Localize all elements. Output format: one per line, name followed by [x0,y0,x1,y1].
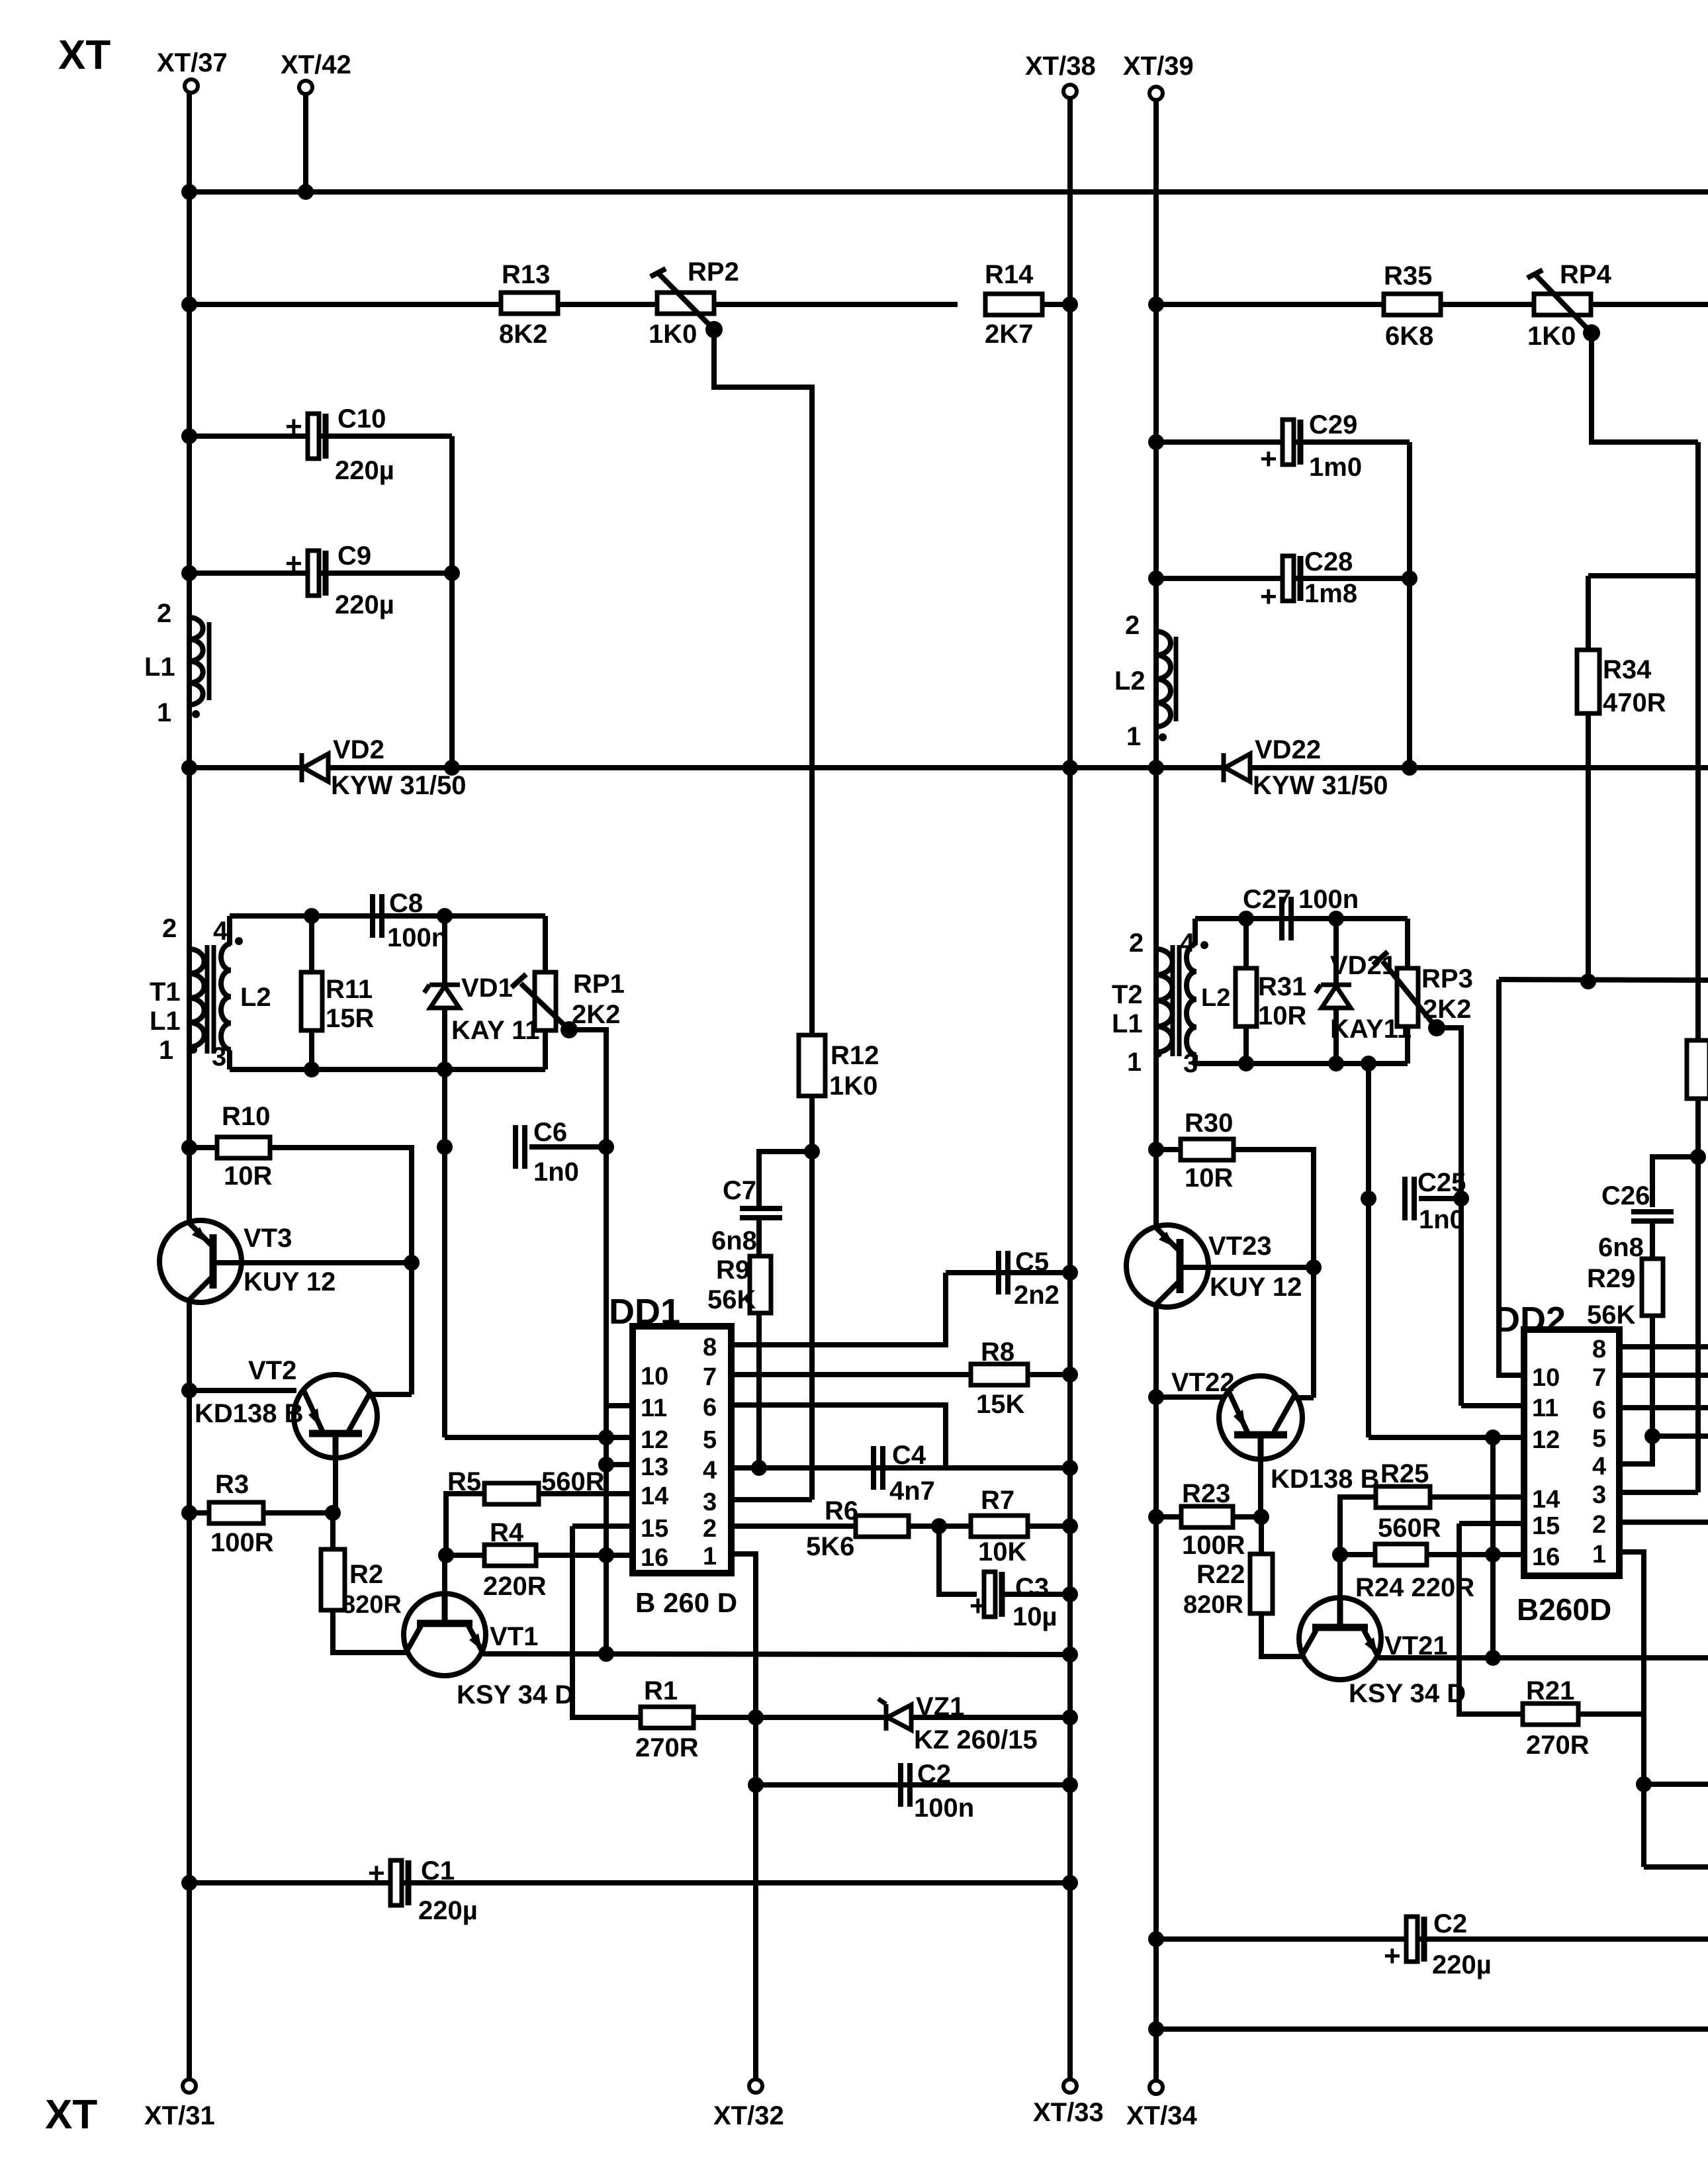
junction DD1-left line VT1 row [598,1646,614,1662]
wire T1 core left [205,945,210,1054]
svg-text:56K: 56K [1587,1300,1635,1330]
svg-text:VD2: VD2 [333,735,384,764]
wire second row left [189,302,502,307]
wire R1 to pin1 line [694,1715,756,1720]
wire R9 bottom lead [756,1313,762,1468]
wire bottom row [1156,2026,1708,2032]
svg-text:KAY 11: KAY 11 [451,1016,539,1045]
svg-text:C28: C28 [1304,547,1353,576]
wire VT22 emitter row [1156,1394,1224,1400]
capacitor C26 [1631,1212,1674,1221]
junction bus VT22 row [1148,1389,1164,1405]
wire pin2 row DD2 [1619,1520,1708,1525]
svg-text:XT/32: XT/32 [713,2101,784,2130]
polarity dot L2 pin1 [1159,733,1167,741]
svg-text:2K2: 2K2 [1423,995,1471,1024]
junction bus C28 row [1148,570,1164,586]
wire C10 row [189,433,452,439]
svg-text:VT23: VT23 [1208,1232,1272,1261]
svg-text:XT/31: XT/31 [144,2101,215,2130]
junction C6 right [598,1139,614,1155]
wire VT2 collector link [368,1392,412,1397]
junction bus C9 row [181,565,197,581]
svg-text:R25: R25 [1380,1459,1429,1488]
capacitor C25 [1405,1177,1414,1220]
transformer T1 secondary [221,944,231,1050]
junction bus R10 row [181,1140,197,1156]
junction DD2-left line pin16 [1485,1547,1501,1563]
svg-text:R7: R7 [981,1486,1014,1515]
wire pin1 jog [731,1554,756,2079]
wire R32 bottom lead [1695,1099,1701,1492]
svg-text:2: 2 [157,599,171,628]
svg-text:B260D: B260D [1517,1592,1611,1627]
svg-text:10R: 10R [224,1161,272,1191]
resistor R11 [301,972,322,1030]
wire VD21 lead [1333,919,1339,1064]
wire T2 core left [1171,945,1175,1056]
junction pin1-line R1 row [748,1709,764,1725]
junction C9 right [444,565,460,581]
svg-text:R14: R14 [985,260,1034,289]
svg-text:VT2: VT2 [248,1356,296,1385]
svg-text:XT: XT [45,2092,97,2138]
wire second row right [1156,302,1386,307]
svg-text:12: 12 [1532,1426,1560,1454]
wire R3 row [189,1510,209,1516]
wire C26 to R29 [1650,1222,1655,1259]
svg-text:4n7: 4n7 [889,1476,935,1506]
svg-text:R3: R3 [215,1470,249,1499]
wire top bus [189,189,1708,195]
wire pin15 to R1 [572,1526,641,1717]
junction VD1 bottom [437,1062,453,1077]
wire C4 row [759,1465,1070,1471]
junction bus bottom row [1148,2021,1164,2037]
svg-text:270R: 270R [1526,1731,1590,1760]
svg-text:10R: 10R [1185,1163,1233,1193]
junction C25 right [1453,1191,1469,1206]
resistor R10 [217,1137,270,1158]
junction DD1-left line pin13 [598,1457,614,1473]
junction XT/38 line R8 row [1062,1367,1078,1383]
wire T1 secondary bottom lead [227,1050,232,1069]
wire pin13 stub [606,1462,633,1467]
wire R11 top lead [309,916,314,972]
transformer T2 primary [1156,949,1173,1052]
polarity dot T2 pin4 [1200,941,1208,949]
IC DD2 B260D [1524,1330,1619,1576]
svg-text:220µ: 220µ [335,456,394,485]
zener diode VD21 [1316,985,1351,1008]
svg-text:KUY 12: KUY 12 [1210,1273,1302,1302]
capacitor C9 [285,547,326,596]
wire R32 line upper [1695,442,1701,1040]
resistor R34 [1577,650,1599,713]
wire C29 right vertical [1407,442,1412,578]
svg-text:RP2: RP2 [688,257,739,287]
junction R22 top [1253,1509,1269,1525]
wire C28 branch to VD22 row [1407,578,1412,768]
svg-text:15: 15 [1532,1512,1560,1540]
transformer T1 primary [189,949,204,1047]
junction R32 line C26 branch [1690,1149,1706,1165]
capacitor C7 [740,1208,782,1218]
wire R3 to R2 junction [263,1510,333,1516]
svg-text:3: 3 [703,1488,717,1516]
wire R34 top lead [1586,576,1591,650]
wire T1 core right [212,945,216,1054]
wire T2 secondary bottom lead [1192,1055,1198,1064]
wire VT3 base row [213,1260,412,1265]
svg-text:2: 2 [1129,929,1144,958]
svg-text:6n8: 6n8 [1598,1233,1644,1262]
junction DD2-left line VT21 row [1485,1650,1501,1666]
svg-text:10: 10 [641,1363,668,1390]
wire T1 secondary top lead [227,916,232,945]
svg-text:R13: R13 [502,260,550,289]
svg-text:6K8: 6K8 [1385,322,1433,351]
wire pin12 horizontal [442,1435,447,1437]
junction R6 R7 [931,1518,947,1534]
svg-text:1: 1 [159,1036,173,1065]
svg-text:5: 5 [703,1426,717,1454]
svg-text:8: 8 [1592,1336,1606,1363]
svg-text:2K2: 2K2 [572,1000,620,1029]
wire C28 row [1156,576,1410,581]
wire T2 secondary top lead [1192,919,1198,945]
svg-text:C7: C7 [723,1176,756,1205]
wire R13 to RP2 [558,302,657,307]
junction XT/37 top bus [181,184,197,200]
zener diode VZ1 [878,1699,911,1731]
resistor R9 [750,1256,771,1313]
junction C28-branch VD22 row [1402,760,1417,776]
junction R29 pin5 row [1644,1428,1660,1444]
junction C28 right [1402,570,1417,586]
svg-text:R12: R12 [831,1041,879,1070]
junction bus VT2 row [181,1383,197,1398]
capacitor C28 [1260,556,1300,613]
junction XT/38 line R7 row [1062,1518,1078,1534]
wire C29 row [1156,439,1410,445]
wire C25 right lead [1419,1196,1461,1201]
junction VD21 bottom [1328,1056,1344,1071]
wire pin6 jog [731,1405,946,1468]
svg-text:C10: C10 [337,404,386,433]
svg-text:+: + [969,1590,987,1622]
wire R22 to VT21 [1261,1613,1304,1657]
svg-text:R21: R21 [1526,1676,1574,1705]
wire R6 to R7 [909,1523,972,1529]
svg-text:560R: 560R [1378,1514,1441,1543]
svg-text:R34: R34 [1603,655,1652,684]
svg-text:1K0: 1K0 [829,1071,877,1101]
terminal XT/34 [1149,2081,1163,2094]
wire R24 to pin16 [1427,1552,1524,1557]
junction bus C1 row [181,1875,197,1891]
wire C3 branch [939,1526,977,1594]
svg-text:R30: R30 [1185,1109,1233,1138]
wire pin3 row [731,1497,812,1502]
wire R14 to XT38 line [1042,302,1070,307]
wire R31 top lead [1243,919,1249,968]
svg-text:DD2: DD2 [1494,1300,1566,1340]
svg-text:XT/38: XT/38 [1025,52,1096,81]
zener diode VD1 [424,985,460,1008]
terminal XT/37 [185,79,198,93]
polarity dot T1 pin4 [235,937,243,945]
svg-text:1: 1 [1127,1048,1142,1077]
capacitor C21 [1384,1917,1424,1972]
resistor R6 [856,1516,909,1537]
wire R22 top lead [1259,1517,1264,1555]
wire pin8 row DD2 [1619,1344,1708,1349]
svg-text:VD22: VD22 [1255,735,1321,764]
wire pin5 row DD2 [1652,1433,1708,1439]
junction VT23 base [1306,1259,1322,1275]
svg-text:C8: C8 [389,889,423,918]
junction left bus second row [181,296,197,312]
svg-text:C9: C9 [337,541,371,570]
capacitor C6 [516,1125,525,1169]
svg-text:8: 8 [703,1334,717,1361]
capacitor C4 [874,1446,883,1490]
wire C26 branch [1652,1157,1698,1207]
wire left bus XT/37 vertical (below VT3) [187,1300,192,2081]
junction R12 C7 branch [804,1144,820,1159]
wire R24 left lead [1340,1552,1376,1557]
svg-text:5: 5 [1592,1425,1606,1453]
resistor R24 [1375,1544,1427,1565]
svg-text:XT/42: XT/42 [281,50,351,79]
svg-text:VZ1: VZ1 [916,1692,964,1721]
polarity dot T1 pin1 [189,1046,197,1054]
resistor R12 [799,1035,825,1096]
svg-text:100n: 100n [387,923,447,952]
wire pin12 row DD2 [1369,1435,1524,1440]
svg-text:XT/37: XT/37 [157,48,228,77]
junction bus R23 row [1148,1509,1164,1525]
svg-text:220R: 220R [483,1572,547,1601]
wire VD21 bottom vertical [1366,1064,1371,1437]
svg-text:XT/33: XT/33 [1033,2098,1104,2127]
transformer T2 secondary [1187,944,1196,1055]
svg-text:L2: L2 [240,983,271,1012]
wire left bus XT/37 vertical (top) [187,93,192,1223]
wire VT2 emitter row [189,1388,296,1393]
svg-text:12: 12 [641,1426,668,1454]
junction right bus VD2 row [1148,760,1164,776]
wire pin15 to R21 [1459,1523,1523,1714]
svg-text:R9: R9 [716,1255,750,1285]
svg-text:3: 3 [1592,1481,1606,1509]
svg-text:VD1: VD1 [461,974,513,1003]
svg-text:10µ: 10µ [1012,1602,1057,1631]
wire pin10 row [1499,979,1708,980]
wire R10 to VT3 base line [270,1148,412,1394]
resistor R8 [971,1364,1028,1385]
svg-text:1n0: 1n0 [533,1158,579,1187]
svg-text:3: 3 [212,1042,226,1071]
wire XT/42 stub [303,94,308,192]
svg-text:14: 14 [1532,1486,1560,1514]
svg-text:L1: L1 [144,653,175,682]
transistor VT3 KUY12 [159,1220,242,1302]
junction bus R30 row [1148,1142,1164,1158]
wire pin6 row DD2 [1619,1405,1708,1410]
svg-text:6: 6 [1592,1396,1606,1424]
svg-text:+: + [1260,443,1277,475]
svg-text:VT1: VT1 [490,1622,538,1651]
wire C21 row [1156,1936,1708,1942]
wire R2 top lead [330,1513,336,1550]
svg-text:R8: R8 [981,1338,1014,1367]
resistor R13 [501,293,558,314]
wire C7 to R9 [756,1220,762,1256]
svg-text:RP4: RP4 [1560,260,1612,289]
capacitor C8 [373,894,382,938]
wire R23 to R22 junction [1233,1514,1261,1520]
svg-text:1: 1 [1126,722,1141,751]
resistor R5 [484,1483,539,1504]
wire VD2/VD22 row [189,765,1708,770]
wire pin7 row DD2 [1619,1373,1708,1378]
junction bus C29 row [1148,434,1164,450]
junction XT/38 line VD2 row [1062,760,1078,776]
svg-text:KSY 34 D: KSY 34 D [457,1680,574,1709]
potentiometer RP4 [1527,270,1600,341]
wire pin1 jog DD2 [1619,1552,1644,1867]
resistor R3 [209,1502,263,1523]
wire RP4 wiper jog [1592,333,1698,442]
wire VT23 base row [1180,1265,1314,1270]
svg-text:KZ 260/15: KZ 260/15 [914,1725,1038,1754]
svg-text:2n2: 2n2 [1014,1281,1059,1310]
wire pin2 row [731,1523,856,1529]
polarity dot L1 pin1 [192,710,200,718]
resistor R7 [971,1516,1028,1537]
wire R35 to RP4 [1441,302,1533,307]
wire VZ1 row [756,1715,1070,1720]
capacitor C1 [368,1857,408,1905]
svg-text:C5: C5 [1015,1248,1049,1277]
terminal XT/31 [183,2079,196,2093]
junction XT/38 line VT1 row [1062,1647,1078,1662]
wire R23 row [1156,1514,1181,1520]
wire DD2-left vertical [1490,1437,1496,1658]
junction XT/38 line VZ1 row [1062,1709,1078,1725]
junction R14 XT/38 line [1062,296,1078,312]
resistor R4 [484,1545,536,1566]
junction R34 pin10 row [1580,974,1596,989]
svg-text:10R: 10R [1258,1001,1306,1030]
svg-text:C6: C6 [533,1118,567,1147]
svg-text:R5: R5 [447,1467,481,1496]
wire R25 to pin14 [1431,1494,1524,1500]
capacitor C5 [999,1251,1008,1294]
wire right bus XT/39 vertical (below VT23) [1153,1304,1159,2083]
svg-text:R11: R11 [326,975,373,1004]
terminal XT/38 [1063,85,1077,98]
svg-text:C2: C2 [917,1760,951,1789]
svg-text:C4: C4 [892,1441,926,1470]
svg-text:4: 4 [213,917,228,946]
junction R24 left [1332,1547,1348,1563]
wire C10 right vertical [449,436,455,768]
wire C1 row [189,1880,1070,1885]
capacitor C3 [969,1572,1002,1622]
wire loop2 right top [1405,919,1410,968]
junction bus C21 row [1148,1931,1164,1947]
resistor R21 [1523,1703,1578,1725]
wire loop2 right bottom [1405,1026,1410,1064]
svg-text:R29: R29 [1587,1264,1635,1293]
svg-text:820R: 820R [1183,1591,1243,1619]
junction DD1-left line pin16 [598,1547,614,1563]
wire T2 core right [1177,945,1182,1056]
wire C7 branch [759,1152,812,1206]
wire R21 to pin1 line [1579,1711,1644,1717]
svg-text:220µ: 220µ [1432,1950,1492,1979]
wire VT22 base lead [1258,1459,1263,1517]
svg-text:C2: C2 [1433,1909,1467,1938]
junction bus C10 row [181,428,197,444]
svg-text:C1: C1 [421,1856,455,1885]
svg-text:16: 16 [1532,1543,1560,1571]
svg-text:10: 10 [1532,1364,1560,1392]
junction XT/38 line C2 row [1062,1777,1078,1793]
capacitor C2 [901,1763,910,1807]
svg-text:R2: R2 [349,1560,383,1589]
wire R30 row [1156,1147,1181,1152]
svg-text:220µ: 220µ [418,1896,478,1925]
wire R30 to VT23 base line [1234,1150,1314,1398]
junction C25-branch loop2 bottom [1361,1056,1376,1071]
resistor R2 [321,1549,345,1610]
junction C6 left [437,1139,453,1155]
svg-text:220µ: 220µ [335,590,394,619]
svg-text:KSY 34 D: KSY 34 D [1349,1679,1466,1708]
svg-text:KYW 31/50: KYW 31/50 [331,771,467,800]
capacitor C10 [285,410,326,459]
wire C2 row [756,1782,1070,1788]
svg-text:+: + [285,547,302,580]
resistor R31 [1236,968,1257,1026]
svg-text:T2: T2 [1112,980,1143,1009]
junction R2 top [325,1505,341,1521]
wire pin10 vertical [1499,979,1524,1375]
wire RP3 wiper vertical [1437,1028,1461,1406]
junction bus VD2 row [181,760,197,776]
svg-text:R4: R4 [490,1518,524,1547]
svg-text:8K2: 8K2 [499,320,547,349]
wire loop bottom [230,1067,545,1072]
svg-text:C26: C26 [1601,1181,1650,1210]
svg-text:2: 2 [162,914,177,943]
wire pin11 stub DD2 [1461,1403,1524,1408]
junction R11 bottom [304,1062,320,1077]
junction pin1-line row 2696 [1636,1776,1652,1792]
wire row 2821 to edge [1644,1864,1708,1870]
wire C3 to XT38 line [1003,1592,1070,1597]
wire loop right top [543,916,548,974]
terminal XT/32 [749,2079,762,2093]
resistor R23 [1181,1506,1233,1527]
svg-text:+: + [1384,1940,1401,1972]
svg-text:R1: R1 [644,1676,678,1705]
svg-text:RP1: RP1 [573,970,625,999]
